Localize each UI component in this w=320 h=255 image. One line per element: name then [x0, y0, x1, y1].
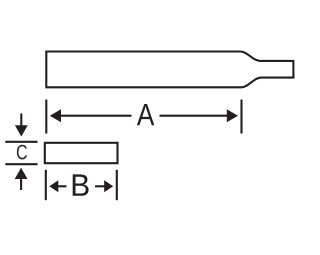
arrowhead C up	[15, 168, 28, 179]
label B	[73, 174, 89, 195]
dimension A right extension tick	[240, 100, 242, 134]
dimension A left extension tick	[45, 100, 47, 134]
label C	[17, 145, 27, 160]
dimension B right extension tick	[116, 170, 118, 200]
dimension B left arrow line	[57, 185, 67, 187]
dimension C upper arrow shaft	[20, 114, 22, 127]
dimension B left extension tick	[45, 170, 47, 200]
file body outline (side view with tang)	[46, 52, 293, 88]
dimension A right arrow line	[160, 115, 229, 117]
arrowhead B right	[104, 180, 113, 192]
cross-section rectangle (edge view)	[45, 143, 118, 163]
arrowhead A left	[50, 109, 61, 122]
dimension C bottom extension line	[5, 163, 37, 165]
arrowhead A right	[227, 109, 238, 122]
dimension C top extension line	[5, 141, 37, 143]
arrowhead C down	[15, 125, 28, 136]
arrowhead B left	[49, 180, 58, 192]
dimension A left arrow line	[59, 115, 132, 117]
dimension C lower arrow shaft	[20, 178, 22, 191]
label A	[137, 104, 154, 125]
dimension B right arrow line	[95, 185, 106, 187]
